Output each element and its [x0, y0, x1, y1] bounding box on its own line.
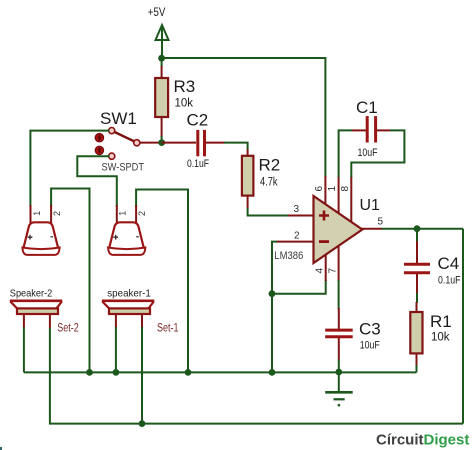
wire SW1 bottom to mic-1 pin1 — [77, 156, 117, 207]
svg-text:0.1uF: 0.1uF — [438, 275, 461, 287]
svg-text:4.7k: 4.7k — [260, 177, 278, 189]
junction C3 / ground — [335, 369, 342, 376]
capacitor C1 — [352, 98, 391, 159]
junction speaker-1 right lead — [139, 420, 146, 427]
junction pin2 node — [269, 290, 276, 297]
wire to pin 4 — [272, 280, 326, 294]
pin 1 — [327, 176, 339, 216]
svg-text:2: 2 — [137, 211, 147, 216]
resistor R2 — [242, 149, 280, 209]
svg-text:1: 1 — [118, 211, 128, 216]
ground — [325, 372, 353, 406]
svg-text:CírcuitDigest: CírcuitDigest — [376, 432, 469, 449]
svg-text:6: 6 — [314, 186, 325, 192]
capacitor C2 — [162, 111, 225, 171]
pin 4 — [315, 250, 326, 281]
wire pin 5 to output node — [382, 228, 463, 230]
capacitor C4 — [404, 229, 461, 294]
wire bottom output rail — [50, 328, 463, 424]
wire C1 right to pin 8 — [351, 130, 404, 177]
junction R3 / SW1 / C2 — [158, 139, 165, 146]
svg-text:10uF: 10uF — [360, 340, 380, 352]
svg-text:Set-1: Set-1 — [157, 323, 179, 335]
wire ground rail — [24, 371, 417, 373]
svg-text:C3: C3 — [359, 320, 381, 339]
svg-text:2: 2 — [52, 211, 62, 216]
wire speaker-1 right lead to bottom rail — [141, 327, 143, 424]
svg-text:R3: R3 — [174, 77, 196, 96]
pin 6 — [314, 176, 326, 207]
svg-text:Speaker-2: Speaker-2 — [10, 288, 53, 300]
svg-text:2: 2 — [294, 231, 300, 242]
svg-text:Set-2: Set-2 — [57, 323, 79, 335]
watermark fragment — [0, 447, 2, 450]
svg-text:0.1uF: 0.1uF — [187, 158, 209, 170]
svg-text:10uF: 10uF — [358, 147, 378, 159]
wire mic-2 pin2 loop — [51, 189, 89, 373]
svg-text:8: 8 — [340, 186, 351, 192]
power +5V — [148, 5, 169, 58]
junction pin2 net on rail — [269, 369, 276, 376]
junction output node — [414, 225, 421, 232]
junction mic-1 return — [185, 369, 192, 376]
wire pin 7 to C3 — [338, 280, 340, 309]
wire C1 left to pin 1 — [339, 130, 352, 177]
wire speaker-2 left lead to rail — [23, 327, 25, 372]
resistor R1 — [410, 302, 451, 372]
svg-text:1: 1 — [327, 186, 338, 192]
svg-text:1: 1 — [32, 211, 42, 216]
svg-text:C4: C4 — [438, 254, 460, 273]
svg-text:3: 3 — [294, 204, 300, 215]
capacitor C3 — [325, 308, 381, 372]
svg-text:SW-SPDT: SW-SPDT — [102, 162, 145, 174]
pin 8 — [340, 176, 351, 224]
wire pin 2 down — [272, 242, 277, 294]
svg-text:7: 7 — [328, 268, 339, 274]
switch SW1 — [95, 109, 162, 174]
svg-text:SW1: SW1 — [100, 109, 137, 128]
wire mic-1 pin2 loop — [136, 190, 188, 373]
svg-text:R1: R1 — [430, 312, 452, 331]
pin 3 — [288, 204, 316, 216]
svg-text:speaker-1: speaker-1 — [107, 288, 151, 300]
speaker Speaker-2 — [10, 288, 79, 335]
pin 2 — [276, 231, 316, 242]
wire C2 to R2 — [224, 143, 248, 150]
resistor R3 — [155, 58, 195, 143]
svg-text:+5V: +5V — [148, 5, 166, 19]
pin 5 — [362, 217, 384, 229]
junction speaker-1 left lead — [113, 369, 120, 376]
svg-text:LM386: LM386 — [274, 250, 303, 262]
wire +5V rail to pin 6 — [162, 58, 326, 177]
junction +5V / R3 — [158, 55, 165, 62]
svg-text:R2: R2 — [259, 156, 281, 175]
logo CircuitDigest — [376, 432, 469, 449]
svg-text:10k: 10k — [175, 98, 194, 110]
svg-text:4: 4 — [315, 268, 326, 274]
junction mic-2 return — [86, 369, 93, 376]
wire output right side down — [462, 229, 464, 424]
op-amp U1 — [274, 196, 380, 263]
microphone mic-2 — [22, 205, 62, 255]
speaker speaker-1 — [102, 288, 179, 335]
svg-text:C2: C2 — [187, 111, 209, 130]
svg-text:10k: 10k — [431, 332, 450, 344]
wire pin2 node to ground rail — [271, 294, 273, 373]
microphone mic-1 — [108, 205, 147, 255]
svg-text:C1: C1 — [356, 98, 378, 117]
pin 7 — [328, 242, 339, 281]
svg-text:5: 5 — [378, 217, 384, 228]
wire speaker-1 left lead to rail — [115, 327, 117, 372]
wire C4 to R1 — [416, 293, 418, 303]
wire SW1 top to mic-2 pin1 — [30, 131, 109, 207]
svg-text:U1: U1 — [360, 197, 381, 214]
wire R2 to pin 3 — [248, 208, 289, 216]
